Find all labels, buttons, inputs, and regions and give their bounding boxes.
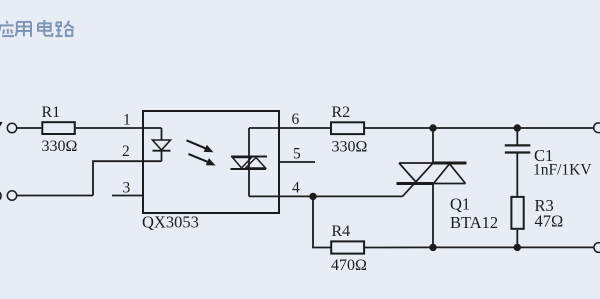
wire R1 to pin1 / LED anode	[76, 127, 162, 129]
svg-text:47Ω: 47Ω	[535, 212, 564, 231]
wire R3 to bottom rail	[516, 230, 518, 248]
resistor R3	[511, 197, 523, 229]
node bottom rail / R3	[514, 244, 521, 251]
wire pin4 / gate run	[249, 195, 403, 197]
optocoupler U1 box QX3053	[143, 111, 279, 213]
svg-text:R2: R2	[332, 104, 351, 121]
resistor R1	[42, 122, 75, 134]
node top rail / Q1	[429, 124, 436, 131]
svg-text:330Ω: 330Ω	[332, 139, 368, 156]
terminal IN- (left bottom, letter D cut off at edge)	[0, 192, 1, 201]
svg-text:1nF/1KV: 1nF/1KV	[533, 162, 592, 179]
light arrow 1	[187, 140, 206, 148]
wire terminal to R1	[17, 127, 42, 129]
svg-text:R4: R4	[332, 223, 351, 240]
svg-text:4: 4	[292, 180, 300, 197]
svg-text:6: 6	[292, 111, 300, 128]
wire top rail R2 to right terminal	[364, 127, 594, 129]
triac Q1	[432, 162, 467, 165]
node bottom rail / Q1	[429, 244, 436, 251]
svg-text:QX3053: QX3053	[142, 213, 199, 232]
svg-text:3: 3	[123, 180, 131, 197]
hanzi ying (partially cut at left edge)	[0, 21, 14, 38]
light arrow 2	[189, 154, 208, 162]
svg-text:Q1: Q1	[450, 195, 470, 214]
svg-text:470Ω: 470Ω	[331, 257, 367, 274]
wire pin6 to R2	[279, 127, 331, 129]
wire terminal to pin2 riser	[17, 195, 93, 197]
LED inside coupler	[161, 128, 163, 140]
capacitor C1	[516, 128, 518, 144]
resistor R2	[331, 122, 364, 134]
wire pin6 inside	[249, 127, 279, 129]
svg-text:R1: R1	[42, 104, 61, 121]
svg-text:330Ω: 330Ω	[42, 138, 78, 155]
svg-text:BTA12: BTA12	[450, 213, 498, 232]
node pin4/R4 junction	[309, 193, 316, 200]
wire top rail to Q1 MT2	[432, 128, 434, 163]
wire R4 riser	[313, 196, 331, 247]
wire bottom rail to right terminal	[433, 246, 594, 248]
pin 3 stub (NC)	[112, 195, 143, 197]
svg-text:5: 5	[293, 146, 301, 163]
hanzi dian	[38, 20, 52, 36]
wire Q1 MT1 to bottom rail	[432, 184, 434, 248]
terminal IN+ (left top, letter V cut off at edge)	[0, 122, 3, 127]
wire riser to pin 2	[93, 161, 162, 195]
title 应用电路 (drawn as strokes)	[0, 20, 74, 38]
terminal OUT bottom (right, cut at page edge)	[594, 243, 600, 253]
hanzi lu	[56, 21, 74, 36]
node top rail / C1	[514, 124, 521, 131]
hanzi yong	[15, 22, 31, 37]
svg-text:2: 2	[122, 143, 130, 160]
svg-text:1: 1	[123, 112, 131, 129]
pin 5 stub	[279, 161, 315, 163]
terminal OUT top (right, cut at page edge)	[594, 123, 600, 133]
resistor R4	[331, 241, 364, 253]
photo-triac inside coupler	[248, 128, 250, 196]
wire R4 to bottom rail	[364, 246, 433, 248]
